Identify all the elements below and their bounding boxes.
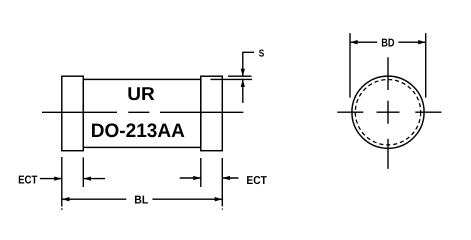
svg-text:BD: BD [381,37,394,49]
dimension BL [62,198,223,200]
arrowhead BL left [62,197,70,201]
extension line tail dot left [61,208,62,210]
left end cap [62,76,84,151]
component body (side view) [83,79,201,147]
arrowhead ECT left outer (right) [54,176,62,180]
svg-text:DO-213AA: DO-213AA [91,120,185,142]
end view horizontal centerline [337,111,441,113]
centerline (side view) [42,111,243,113]
arrowhead ECT left inner (left) [83,176,91,180]
right end cap [201,76,223,151]
arrowhead ECT right inner (right) [193,176,201,180]
arrowhead BD left [350,40,358,44]
arrowhead S top (down) [241,69,245,77]
end view outer circle [352,76,424,148]
dimension BD line [350,41,426,43]
svg-text:UR: UR [127,83,155,104]
arrowhead ECT right outer (left) [222,176,230,180]
extension lines below caps [62,157,223,207]
arrowhead BD right [418,40,426,44]
arrowhead BL right [215,197,223,201]
extension line tail dot right [222,209,223,210]
arrowhead S bottom (up) [241,79,245,87]
svg-text:ECT: ECT [18,175,37,187]
dimension BD extension lines [350,33,426,98]
dimension ECT left [40,178,105,180]
dimension ECT right [180,177,239,179]
svg-text:S: S [259,49,265,60]
dimension S leader and arrows [243,52,254,103]
end view dashed circle [355,80,420,145]
svg-text:ECT: ECT [246,175,267,187]
end view vertical centerline [387,57,389,169]
dimension S extension lines [211,76,253,79]
svg-text:BL: BL [134,195,148,207]
